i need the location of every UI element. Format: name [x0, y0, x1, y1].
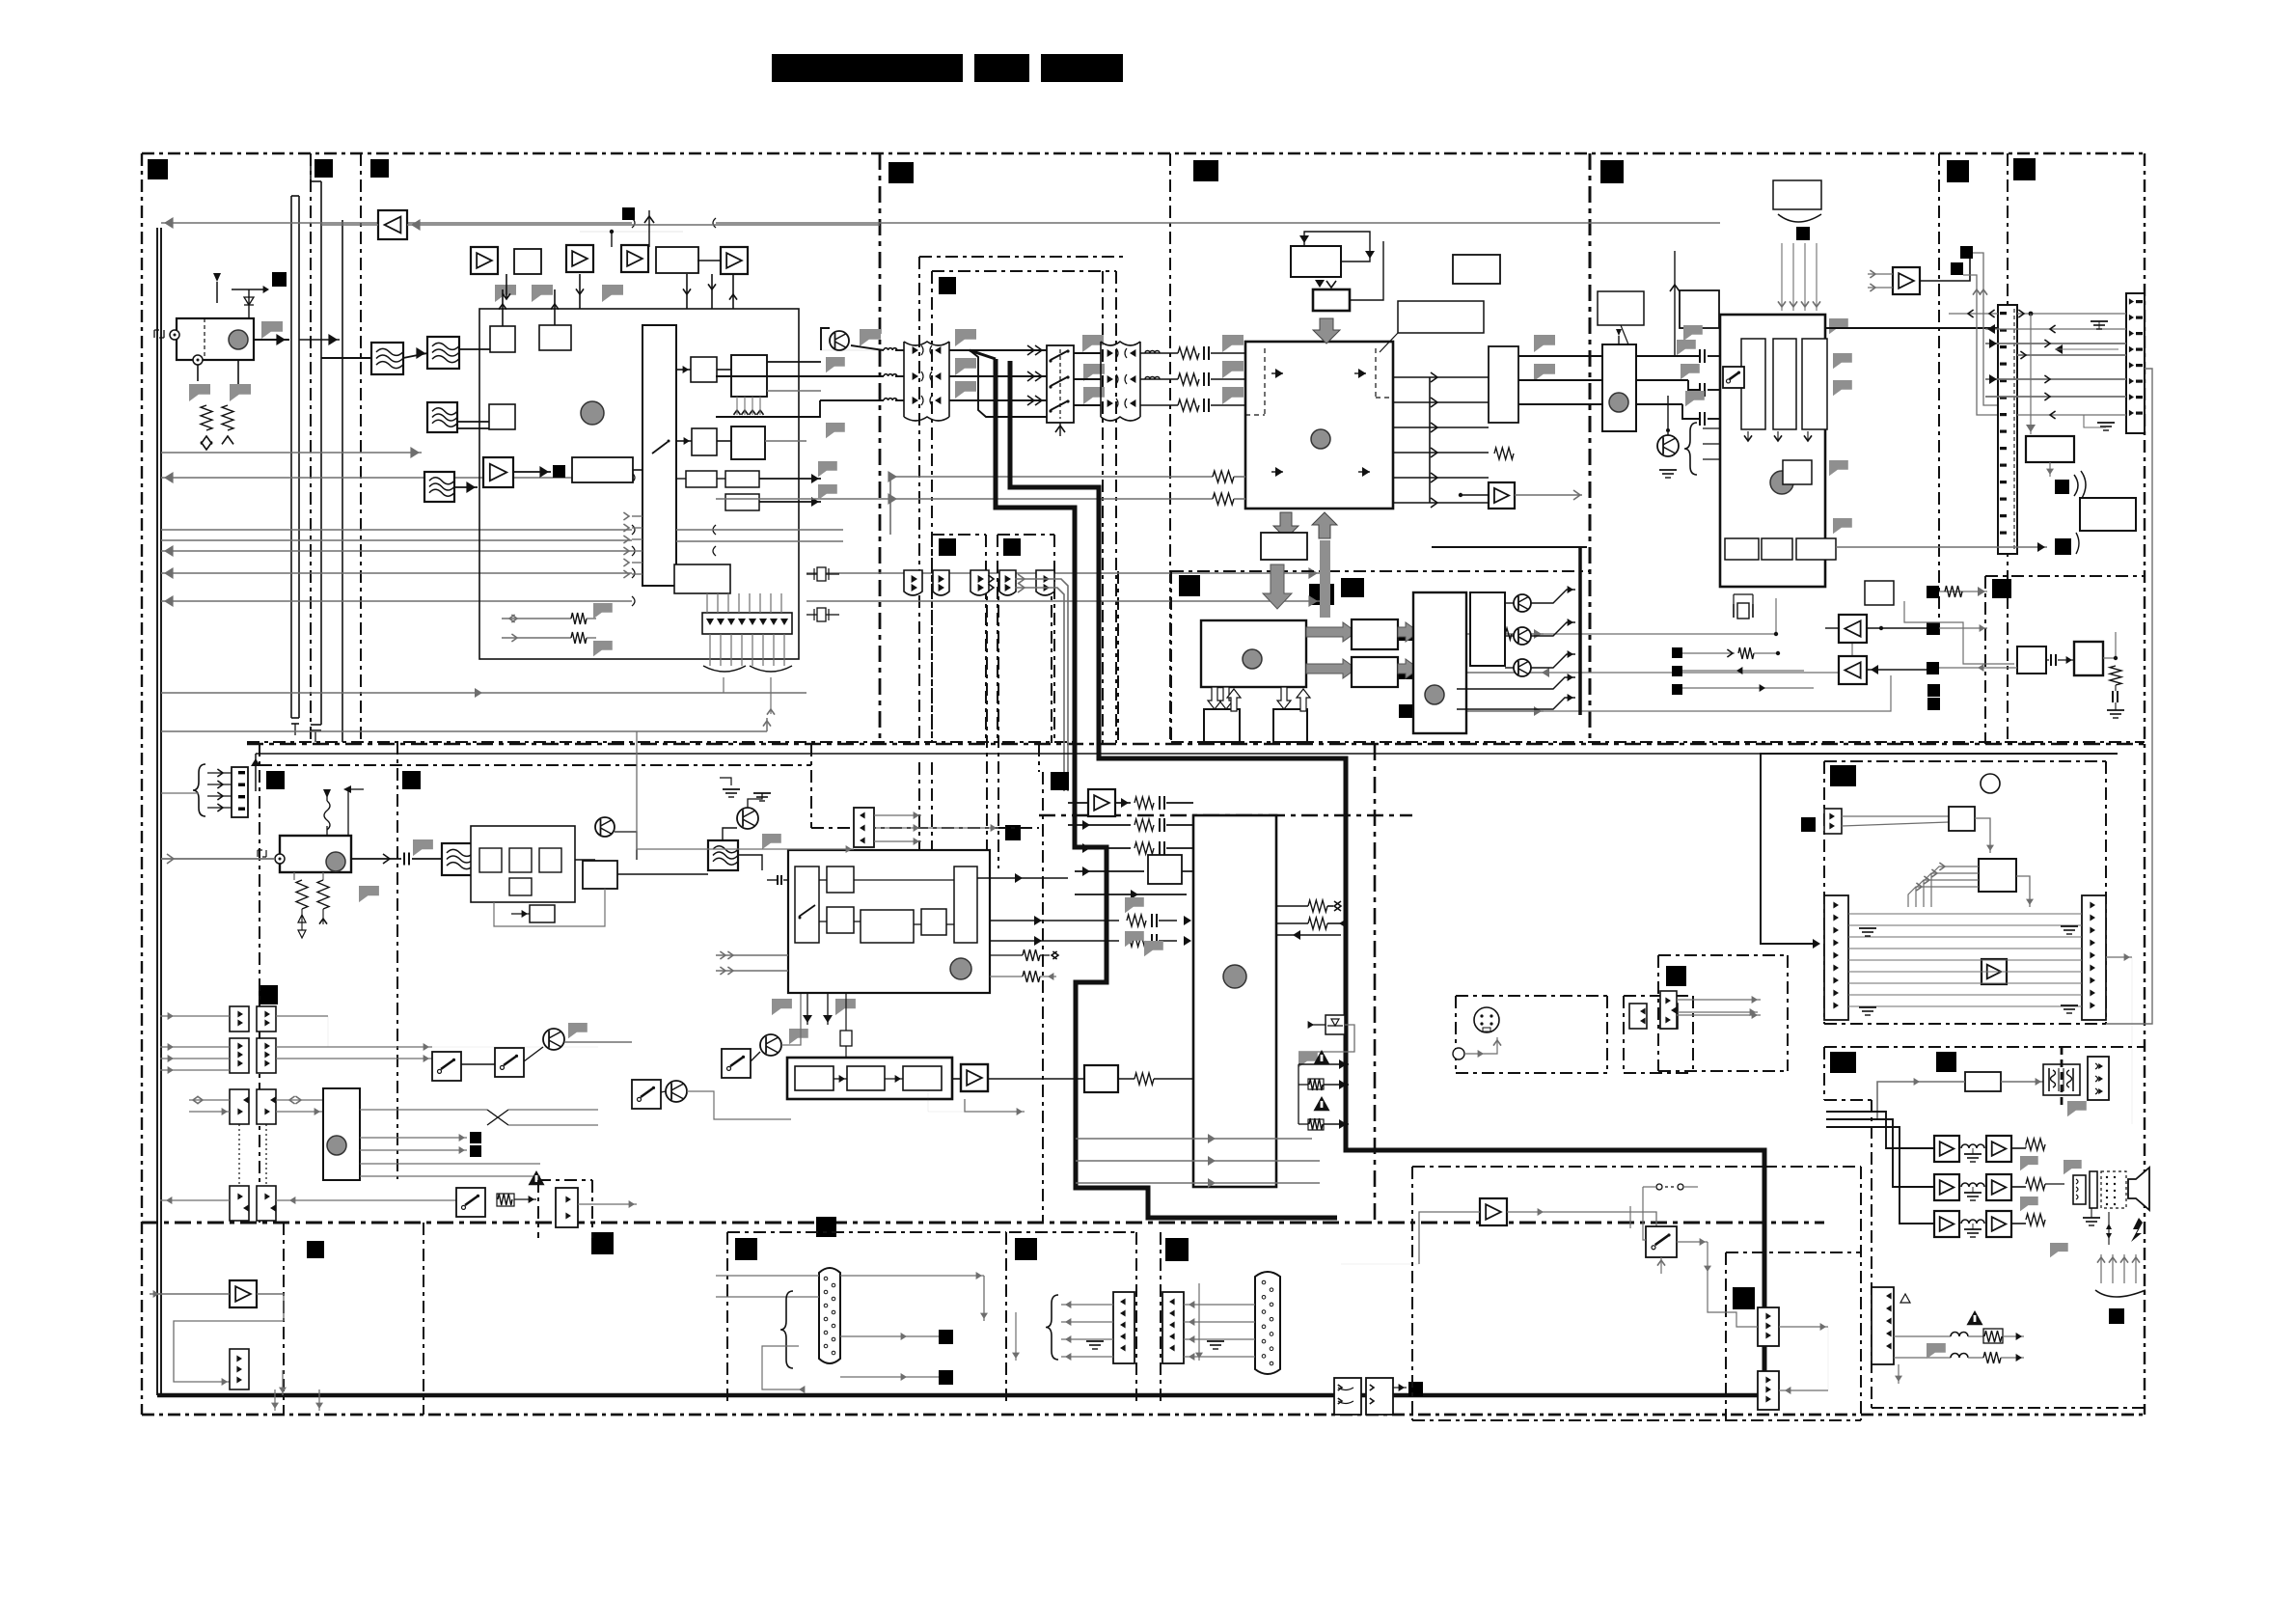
amp A3 box	[621, 245, 648, 272]
conn mini	[556, 1188, 578, 1227]
flag u5r1	[1829, 318, 1848, 334]
flag u6b	[1534, 364, 1555, 381]
wire f2-b1	[459, 348, 490, 350]
wire cn row3	[1985, 343, 2126, 344]
channel v1	[918, 257, 920, 743]
wire w3a	[821, 328, 830, 350]
switch S4	[632, 1080, 661, 1109]
flag av1	[1125, 897, 1144, 913]
wire u13 o2	[360, 1137, 467, 1139]
transistor Q10	[1514, 594, 1531, 612]
wire F4 chain	[454, 486, 478, 488]
cable clamp CN1	[904, 342, 949, 421]
label A3	[370, 159, 389, 178]
flag sp1	[2020, 1156, 2038, 1170]
flag sp4	[2050, 1243, 2068, 1257]
wire u13 o1	[360, 1109, 487, 1111]
wire link2	[1779, 1389, 1828, 1391]
box mute	[1084, 1065, 1118, 1092]
frame right border	[2144, 153, 2146, 1415]
remote box	[1824, 760, 2106, 762]
U5 sub7	[1796, 538, 1836, 560]
wire f6-u16	[474, 856, 479, 858]
spk conn	[2073, 1175, 2086, 1204]
callout box	[1398, 301, 1484, 333]
title bar 3	[1041, 54, 1123, 82]
amp A18	[1986, 1211, 2011, 1237]
flag u5l1	[1683, 325, 1703, 341]
flag sw1a	[1082, 335, 1104, 352]
sub-box conn	[810, 744, 812, 828]
IC U4 video processor	[1245, 342, 1393, 509]
tuner U1 dot	[229, 330, 248, 349]
res-cap row2	[1140, 378, 1178, 380]
wire u12 out r3	[1276, 934, 1341, 936]
title bar 2	[974, 54, 1029, 82]
res box audio	[1983, 1329, 2003, 1343]
wire box r	[1894, 591, 1927, 592]
flag z1	[1298, 1052, 1318, 1067]
conn rmL	[1824, 895, 1848, 1020]
wire r1 out	[767, 361, 821, 363]
din box2	[1624, 995, 1693, 997]
s7 arrows	[1660, 1257, 1662, 1274]
amp buffer U2	[378, 210, 407, 239]
wire u11 b1	[1457, 677, 1575, 689]
wire fan2	[709, 634, 711, 666]
u14 out row1	[977, 877, 1068, 879]
trio wire1	[1682, 652, 1735, 654]
warn audio	[1900, 1294, 1910, 1303]
amp A14	[1986, 1136, 2011, 1162]
coil v3	[884, 399, 897, 400]
wire g4	[941, 827, 998, 829]
IC U14 av switch	[788, 850, 990, 993]
wire b1 in	[1939, 667, 2017, 669]
antenna mast	[213, 273, 221, 282]
res amp1	[2011, 1147, 2026, 1149]
IC U9 ddr	[1201, 620, 1306, 687]
wire chain5	[697, 260, 721, 261]
crystal X1	[1733, 604, 1735, 618]
wire a6	[1825, 627, 1839, 629]
box b1	[490, 326, 515, 352]
flag av3	[1144, 941, 1163, 956]
conn fan	[702, 613, 792, 634]
brace U5	[1778, 214, 1821, 222]
wire audio l	[1411, 633, 1544, 635]
res-cap row3	[1140, 404, 1178, 406]
wire tuner gnd	[197, 365, 199, 381]
wire F3-b3	[457, 421, 489, 423]
flag sw1b	[1083, 364, 1105, 381]
fm rf in	[275, 854, 285, 864]
wire u13 o4	[360, 1163, 540, 1165]
coil v2	[884, 374, 897, 376]
wire din	[1486, 1000, 1488, 1007]
U3 tail box	[674, 564, 730, 593]
wire b2 up	[2103, 632, 2116, 658]
conn CN10	[1998, 305, 2017, 554]
channel v2b	[931, 762, 933, 941]
flag mid2	[593, 641, 613, 656]
flag av2	[1125, 931, 1144, 947]
transistor Q12	[1514, 659, 1531, 676]
wire s2s3	[461, 1063, 495, 1065]
arrow tuner2	[222, 436, 233, 444]
wire cn row5	[1985, 378, 2126, 380]
conn link1	[1758, 1307, 1779, 1346]
wire s5 q6	[751, 1052, 760, 1061]
wire t2o1	[1636, 355, 1700, 357]
collector line	[1429, 377, 1431, 503]
wire tuner bus	[299, 339, 340, 341]
wire cn pair	[1015, 579, 1068, 791]
wire cc out6	[276, 1199, 456, 1201]
label J1	[735, 1238, 757, 1260]
wire a5	[1461, 494, 1489, 496]
flag w2	[826, 357, 845, 372]
wire a10 down	[282, 1370, 284, 1395]
fm box v2	[396, 742, 398, 1179]
channel v8	[1117, 571, 1119, 742]
tuner2 U8	[1602, 344, 1636, 431]
wire a7	[1867, 669, 1927, 671]
connector pair w2	[1036, 570, 1054, 595]
wire bus-F1	[321, 357, 371, 359]
bus channel lines	[290, 196, 292, 718]
wire L5	[161, 539, 632, 541]
din box	[1456, 995, 1607, 997]
wire u14 in2	[716, 970, 788, 972]
frame bottom border	[142, 1414, 2145, 1417]
conn a10	[230, 1349, 249, 1389]
spk dash box	[2101, 1171, 2126, 1208]
fm mast2	[347, 789, 349, 836]
IC U5 AD converter	[1720, 315, 1825, 587]
wire cc out4	[276, 1099, 323, 1101]
spk bar	[2090, 1171, 2097, 1208]
channel v4	[1115, 271, 1117, 743]
wire s4 q7	[661, 1091, 666, 1092]
tuner2 dot	[1609, 393, 1628, 412]
gray bus vert	[1320, 540, 1330, 618]
lightning	[2131, 1218, 2143, 1242]
digital sub-box left	[1170, 571, 1172, 742]
res fm1	[293, 872, 295, 880]
wire da in2	[716, 1296, 819, 1298]
trio wire3	[1682, 687, 1814, 689]
wire mid long2	[716, 498, 1213, 500]
wire rm2	[1975, 818, 1990, 853]
thick bottom bus line	[157, 1393, 1764, 1398]
audio in sq1	[1399, 627, 1412, 641]
left bottom dd	[247, 741, 1075, 743]
box B1	[2017, 646, 2046, 674]
inner link box	[1725, 1252, 1727, 1420]
wire sq d2	[1963, 275, 1998, 415]
amp A10	[230, 1280, 257, 1307]
box U10b	[1352, 657, 1398, 687]
label N1	[307, 1241, 324, 1258]
box rm keys	[1949, 807, 1975, 831]
gray arrow U9-U10b	[1306, 659, 1356, 678]
switch SW1	[1047, 345, 1074, 423]
amp A2 box	[566, 245, 593, 272]
wire warn1	[1298, 1063, 1349, 1065]
flag w3	[826, 423, 845, 438]
cable clamp CN2	[1101, 342, 1140, 421]
wire g3	[874, 840, 921, 842]
wire b1-chain	[502, 289, 504, 326]
amp A16	[1986, 1174, 2011, 1200]
wire L2	[161, 452, 422, 454]
wire mute out	[1118, 1078, 1134, 1080]
wire L3	[161, 477, 632, 479]
label E3	[259, 985, 278, 1004]
hooks bus	[632, 218, 716, 606]
thick bus B	[1010, 361, 1764, 1395]
resistor tuner2	[222, 405, 233, 430]
conn col a2	[257, 1006, 276, 1032]
wire rc3	[1074, 404, 1101, 406]
wire u12 in5	[1182, 870, 1193, 872]
xbox 1	[1334, 1378, 1361, 1415]
flag u5r3	[1833, 380, 1852, 396]
wire u12 in6	[1075, 894, 1187, 895]
wire u12 bottom rows	[1076, 1138, 1312, 1140]
box chain 2	[847, 1066, 885, 1090]
tuner2 callout	[1598, 291, 1644, 325]
wire u5 out main	[1825, 327, 1998, 329]
wire u4o	[1393, 376, 1430, 378]
label K1	[1015, 1238, 1037, 1260]
wire b1 in2	[1939, 627, 1987, 629]
warn audio2	[1966, 1310, 1982, 1325]
wire link loop	[1708, 1274, 1758, 1327]
left inner bus	[156, 228, 158, 1395]
wire u13 o5	[360, 1175, 540, 1177]
U16 sub2	[509, 848, 532, 872]
label D2	[2013, 158, 2036, 180]
conn rmR	[2082, 895, 2106, 1020]
wire audio l2	[1411, 672, 1544, 674]
label B2	[1193, 160, 1218, 181]
conn col b2	[257, 1038, 276, 1073]
U5 sub6	[1783, 460, 1812, 484]
wire u11 b2	[1457, 698, 1575, 709]
wire cn row1	[2017, 313, 2126, 315]
label F1	[939, 277, 956, 294]
col divider x1648	[1589, 153, 1592, 744]
link box	[1412, 1166, 1764, 1168]
switch S2	[432, 1052, 461, 1081]
wire rc1	[1074, 352, 1101, 354]
warn s6	[528, 1170, 544, 1185]
wire audio down	[1898, 1364, 1900, 1384]
wire bl1	[274, 1389, 276, 1411]
IC U11 flash	[1413, 592, 1466, 733]
box chain 3	[903, 1066, 942, 1090]
gray arrow U9-U10a	[1306, 622, 1356, 642]
bottom L box right	[283, 1223, 285, 1415]
wire F1-F2	[403, 353, 427, 358]
box headphone	[1148, 855, 1182, 884]
wire t2o3	[1636, 403, 1682, 405]
CN2 contacts	[1107, 349, 1113, 357]
frame top border	[142, 152, 2145, 154]
wire amp in3	[1826, 1127, 1934, 1224]
U14 sub2	[827, 867, 854, 893]
chain arrows	[834, 1078, 847, 1080]
amp A3b	[721, 247, 748, 274]
box TV	[2026, 436, 2074, 462]
gray arrow up	[1312, 512, 1337, 538]
label B1	[888, 162, 914, 183]
wire u14 in1	[716, 954, 788, 956]
conn fm in	[232, 767, 248, 817]
coil g1	[1961, 1144, 1984, 1148]
wire sq r1	[1939, 591, 1987, 592]
amp A8	[1088, 789, 1115, 816]
U14 sub tall6	[954, 867, 977, 943]
U16 sub3	[539, 848, 561, 872]
wire video1	[895, 349, 904, 351]
flag cn1c	[955, 381, 976, 399]
sub-box u2	[998, 534, 1054, 536]
rm fan	[1931, 867, 1979, 907]
label subbox2	[1003, 538, 1021, 556]
flag f5	[762, 834, 781, 849]
U9 dot	[1243, 649, 1262, 669]
right sub-box dd	[1985, 575, 2145, 577]
wire amp in2	[1826, 1119, 1934, 1187]
wire a19 in2	[1868, 287, 1893, 289]
wires brace	[1703, 427, 1768, 429]
wires audio join	[1544, 598, 1776, 634]
connector pair w0	[904, 570, 949, 595]
SAW filter F1	[371, 343, 403, 374]
channel v2	[931, 271, 933, 743]
wire L1	[161, 222, 632, 224]
res warn1	[1308, 1079, 1324, 1089]
U5 sub5	[1762, 538, 1792, 560]
U5 switch	[1723, 367, 1744, 388]
wire u14 in cap	[767, 879, 778, 881]
col divider x374	[360, 153, 362, 744]
din small circle	[1453, 1048, 1464, 1059]
flag audio	[1927, 1343, 1946, 1359]
flag u5r2	[1833, 353, 1852, 369]
zener D1	[1326, 1015, 1345, 1034]
U5 sub4	[1725, 538, 1759, 560]
wire da out1	[840, 1275, 984, 1277]
wire u14 int	[819, 879, 827, 881]
wire a10 out	[257, 1294, 284, 1321]
U16 sub1	[479, 848, 502, 872]
CN1 contacts	[913, 346, 918, 354]
digital bottom dd	[1171, 741, 2145, 743]
U4 dot	[1311, 429, 1330, 449]
res w s6	[497, 1194, 514, 1206]
wire chain out	[952, 1078, 961, 1080]
wire R8	[806, 600, 1320, 602]
wire g2	[874, 827, 941, 829]
conn B	[1113, 1292, 1134, 1363]
label sq chain	[622, 207, 635, 220]
transistor Q4	[595, 817, 615, 837]
eep arrows	[1299, 235, 1309, 243]
flag sp2	[2064, 1160, 2082, 1174]
wire zener	[1298, 1025, 1354, 1052]
tuner U1 dashed divider	[204, 318, 205, 360]
u14 cap bottom	[845, 993, 847, 1031]
conn col d2	[257, 1186, 276, 1221]
U12 dot	[1223, 965, 1246, 988]
label R1	[1733, 1287, 1755, 1309]
wire mid long1	[890, 476, 1213, 478]
col divider x912	[879, 153, 882, 744]
flag u6a	[1534, 335, 1555, 352]
amp A17	[1934, 1211, 1959, 1237]
SAW filter F4	[424, 472, 454, 502]
sub-box channel a2	[932, 270, 1116, 272]
sub-box u1	[932, 534, 986, 536]
wire dcdc out	[2001, 1081, 2043, 1083]
dd mini box	[537, 1180, 539, 1238]
transformer T1	[2049, 1068, 2073, 1091]
bottom sec v2	[423, 1223, 424, 1415]
wire t2o2	[1636, 379, 1688, 381]
label E1	[266, 771, 285, 789]
wire cc7	[160, 1199, 230, 1201]
wire bl2	[318, 1389, 320, 1411]
audio in sq2	[1399, 666, 1412, 679]
bottom C box	[1160, 1232, 1162, 1406]
dotted link	[238, 1124, 240, 1186]
label M1	[591, 1232, 614, 1254]
box U7b	[1313, 289, 1350, 311]
flag u14 b2	[835, 999, 856, 1015]
SW1 arrow	[1059, 423, 1061, 436]
flag f2	[532, 285, 553, 302]
U14 sub4	[861, 910, 914, 943]
label small tuner	[272, 272, 287, 287]
wire eep loop	[1304, 232, 1370, 261]
conn P	[1660, 991, 1677, 1029]
box r3a	[686, 471, 717, 487]
brace fan	[703, 666, 792, 672]
amp A5	[1489, 482, 1515, 509]
amp A13	[1934, 1136, 1959, 1162]
gray return wire	[2106, 369, 2152, 1024]
conn link2	[1758, 1371, 1779, 1410]
wire u16 out	[575, 859, 595, 861]
gray arrow U10b-U11	[1398, 659, 1419, 678]
wire cc out5	[276, 1111, 323, 1113]
wire q5 out	[564, 1041, 632, 1043]
u14 down arrows	[806, 993, 808, 1025]
col divider x2010	[1938, 153, 1940, 637]
label Q2	[1936, 1052, 1956, 1072]
wire g1	[874, 814, 921, 816]
spk gnd	[2083, 1217, 2100, 1219]
box r3b	[725, 471, 759, 487]
wire u16 fb	[494, 889, 605, 926]
IF block U16	[471, 826, 575, 902]
wire rm1	[1842, 815, 1949, 817]
amp A11	[1480, 1198, 1507, 1225]
